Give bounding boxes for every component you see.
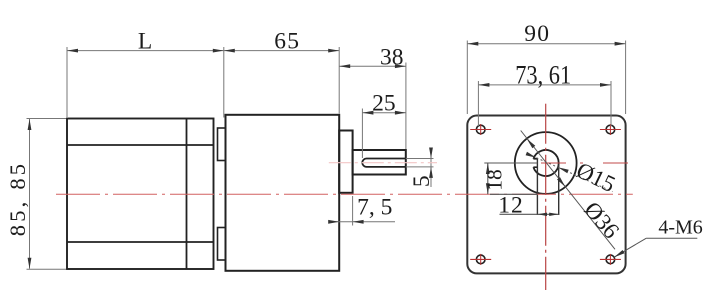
motor internal line top	[67, 144, 214, 146]
dimension 25 line	[362, 109, 406, 159]
dimension 5 (shaft flat) lines	[406, 149, 434, 187]
dimension L line	[67, 47, 224, 118]
dimension 90 lines	[467, 41, 625, 115]
svg-text:5: 5	[409, 175, 435, 187]
centerline: front view shaft horizontal (red dash-dot)	[541, 162, 633, 164]
bolt hole bottom-left	[476, 255, 485, 264]
svg-text:4-M6: 4-M6	[658, 217, 702, 239]
leader diameter 36 arrows	[527, 139, 566, 187]
svg-text:7, 5: 7, 5	[357, 195, 392, 221]
motor body	[67, 119, 214, 270]
svg-text:38: 38	[380, 44, 404, 70]
motor end-cap vertical line	[186, 119, 188, 270]
extension line right of flat (for 12)	[558, 165, 560, 216]
dimension 7,5 arrows	[328, 220, 363, 224]
motor internal line bottom	[67, 241, 214, 243]
bolt hole bottom-left crosshair	[470, 254, 491, 265]
dimension 73,61 arrows	[478, 83, 611, 87]
svg-text:L: L	[138, 29, 152, 55]
keyway slot top edge	[533, 158, 537, 160]
leader diameter 36	[521, 131, 615, 250]
svg-text:73, 61: 73, 61	[515, 60, 571, 89]
dimension 5 arrows	[429, 148, 433, 178]
shaft circle diameter 15 with keyway slot	[533, 150, 558, 176]
output shaft	[353, 150, 406, 175]
dimension 85,85 arrows	[28, 119, 32, 269]
svg-text:90: 90	[524, 21, 550, 47]
bolt hole top-right	[606, 125, 615, 134]
centerline: output shaft axis side view (pale pink dash-dot)	[329, 162, 437, 164]
dimension 85,85 line	[27, 119, 67, 270]
dimension 38 line	[339, 63, 406, 150]
mounting tab bottom	[218, 228, 226, 261]
mounting plate (front view)	[467, 116, 625, 274]
boss circle diameter 36	[515, 132, 577, 194]
dimension 12 arrows	[538, 213, 559, 216]
dimension 65 arrows	[224, 49, 339, 53]
dimension 65 line	[224, 47, 339, 114]
dimension 25 arrows	[362, 111, 406, 115]
centerline: main motor axis (red dash-dot)	[56, 193, 633, 195]
bolt hole top-left	[476, 125, 485, 134]
dimension 7,5 lines	[333, 196, 396, 226]
centerline: front view vertical (red dash-dot)	[545, 104, 547, 290]
svg-text:65: 65	[274, 28, 300, 54]
output boss	[339, 131, 352, 193]
svg-text:12: 12	[498, 193, 524, 219]
keyway flat face / extension line for 12	[536, 159, 538, 215]
dimension 12 line	[500, 213, 559, 215]
dimension 73,61 lines	[478, 81, 611, 126]
svg-text:Ø36: Ø36	[579, 197, 624, 243]
svg-text:25: 25	[372, 90, 396, 116]
bolt hole bottom-right crosshair	[600, 254, 621, 265]
mounting tab top	[218, 128, 226, 161]
leader 4-M6	[614, 238, 697, 257]
leader 4-M6 arrow	[614, 250, 624, 257]
leader diameter 15 (dotted)	[528, 154, 613, 192]
dimension 38 arrows	[339, 64, 406, 68]
dimension L arrows	[67, 49, 224, 53]
dimension 18 lines	[484, 163, 537, 194]
shaft flat (keyway slot)	[362, 159, 405, 167]
dimension 18 arrows	[486, 163, 490, 194]
bolt hole top-right crosshair	[600, 124, 621, 135]
leader diameter 15 arrows	[526, 152, 569, 173]
bolt hole bottom-right	[606, 255, 615, 264]
keyway slot bottom edge	[533, 166, 537, 168]
dimension 90 arrows	[467, 42, 625, 46]
bolt hole top-left crosshair	[470, 124, 491, 135]
svg-text:18: 18	[483, 169, 507, 191]
svg-text:85, 85: 85, 85	[5, 161, 30, 236]
gearbox body	[226, 115, 340, 271]
